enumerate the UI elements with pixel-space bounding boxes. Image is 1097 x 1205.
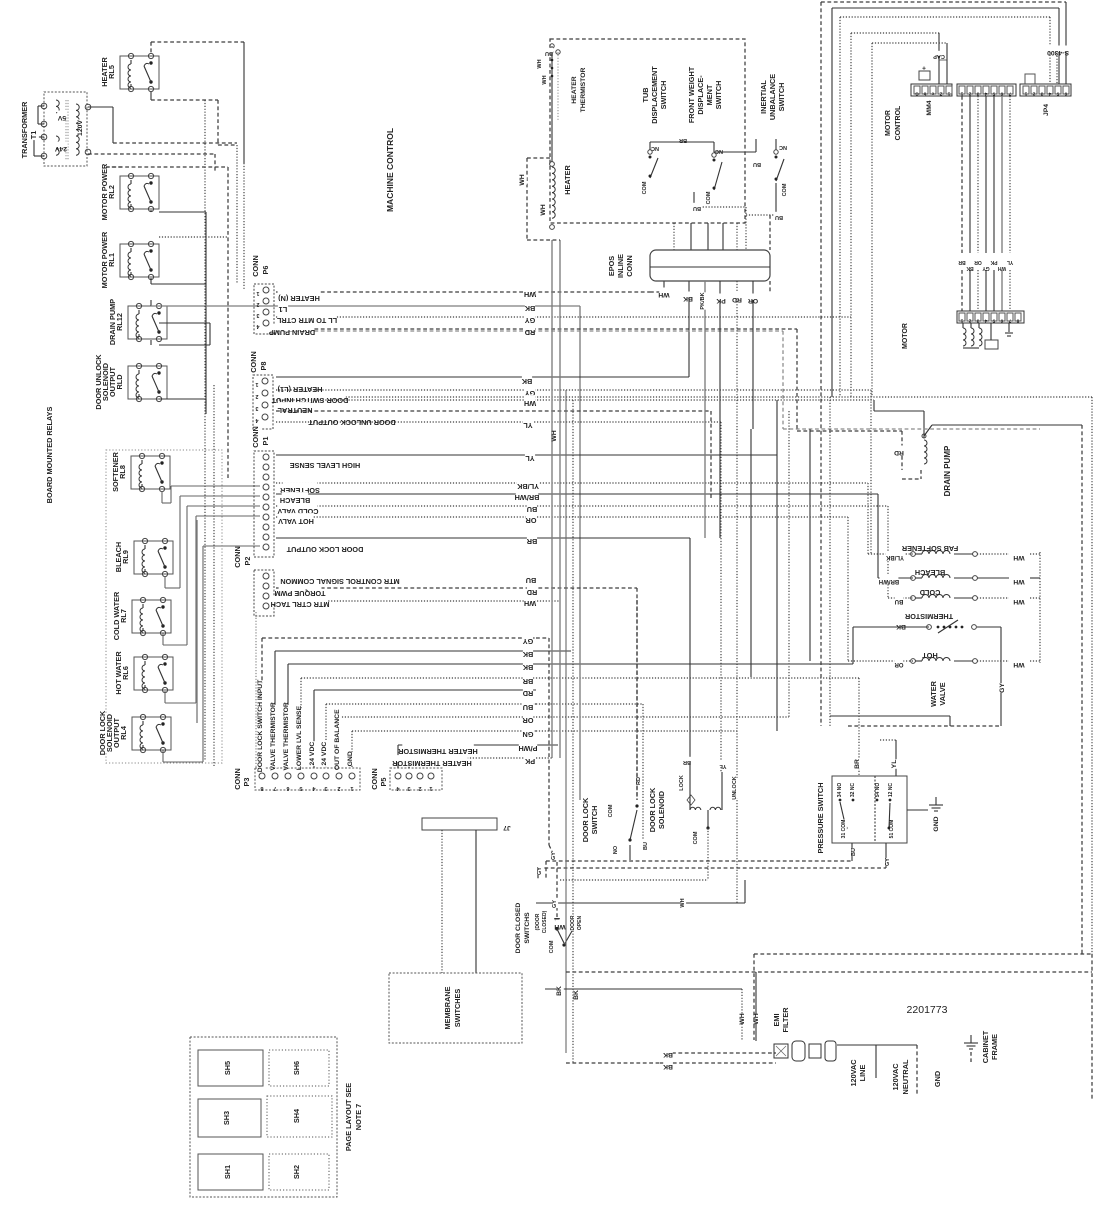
svg-text:24 VDC: 24 VDC <box>309 742 316 766</box>
svg-text:CONN: CONN <box>251 255 260 277</box>
svg-text:YL: YL <box>891 760 898 769</box>
svg-text:3: 3 <box>324 785 327 791</box>
svg-text:P5: P5 <box>379 778 388 787</box>
svg-text:DISPLACE-: DISPLACE- <box>696 75 705 115</box>
svg-text:HEATER THERMISTOR: HEATER THERMISTOR <box>391 759 471 768</box>
svg-text:1: 1 <box>256 290 259 296</box>
svg-text:PK: PK <box>716 297 726 304</box>
svg-text:BK: BK <box>663 1063 673 1070</box>
svg-text:WH: WH <box>680 898 686 907</box>
svg-text:DOOR LOCK: DOOR LOCK <box>648 787 657 832</box>
svg-text:P6: P6 <box>261 266 270 275</box>
svg-text:RD: RD <box>732 296 742 303</box>
svg-text:P2: P2 <box>243 557 252 566</box>
svg-text:1: 1 <box>255 381 258 387</box>
svg-text:WH: WH <box>1013 598 1024 605</box>
svg-text:WH: WH <box>524 399 536 408</box>
svg-text:RD: RD <box>636 777 642 785</box>
svg-text:GY: GY <box>552 900 558 908</box>
svg-text:CAP: CAP <box>933 53 945 59</box>
svg-text:BU: BU <box>693 205 701 211</box>
svg-text:LOCK: LOCK <box>679 775 685 791</box>
svg-text:P/WH: P/WH <box>518 744 537 753</box>
svg-text:INLINE: INLINE <box>616 254 625 278</box>
svg-text:P3: P3 <box>242 778 251 787</box>
svg-text:BR: BR <box>854 759 861 769</box>
svg-text:WH: WH <box>753 1013 760 1024</box>
svg-text:SH5: SH5 <box>223 1061 232 1075</box>
svg-text:GY: GY <box>551 852 557 860</box>
svg-text:3: 3 <box>256 312 259 318</box>
svg-text:HEATER THERMISTOR: HEATER THERMISTOR <box>397 747 477 756</box>
svg-text:OUT OF BALANCE: OUT OF BALANCE <box>334 709 341 770</box>
svg-text:BK: BK <box>663 1051 673 1058</box>
svg-text:P1: P1 <box>261 437 270 446</box>
svg-text:MEMBRANE: MEMBRANE <box>443 986 452 1029</box>
svg-text:51 COM: 51 COM <box>889 820 895 839</box>
svg-text:EMI: EMI <box>772 1014 781 1027</box>
svg-text:G: G <box>915 92 919 97</box>
svg-text:BU: BU <box>523 703 534 712</box>
svg-text:WH: WH <box>542 75 548 84</box>
svg-text:MENT: MENT <box>705 84 714 105</box>
svg-text:FRONT WEIGHT: FRONT WEIGHT <box>687 66 696 123</box>
svg-text:BK: BK <box>521 377 532 386</box>
svg-text:JP4: JP4 <box>1043 104 1050 116</box>
svg-text:FAB SOFTENER: FAB SOFTENER <box>901 544 958 553</box>
svg-text:BK: BK <box>896 623 906 630</box>
svg-text:NC: NC <box>715 148 723 154</box>
svg-text:BR/WH: BR/WH <box>515 493 540 502</box>
svg-text:RLD: RLD <box>115 375 124 390</box>
svg-text:FRAME: FRAME <box>990 1034 999 1060</box>
svg-text:2: 2 <box>337 785 340 791</box>
svg-text:RD: RD <box>894 449 904 456</box>
svg-text:PK: PK <box>524 757 535 766</box>
svg-text:BK: BK <box>966 265 974 271</box>
svg-text:BOARD MOUNTED RELAYS: BOARD MOUNTED RELAYS <box>45 407 54 504</box>
svg-text:MACHINE CONTROL: MACHINE CONTROL <box>385 128 395 212</box>
svg-text:NC: NC <box>779 144 787 150</box>
svg-text:SH1: SH1 <box>223 1165 232 1179</box>
svg-text:Z: Z <box>939 92 942 97</box>
svg-text:WH: WH <box>524 599 536 608</box>
svg-text:THERMISTOR: THERMISTOR <box>580 68 587 113</box>
svg-text:DOOR LOCK: DOOR LOCK <box>581 797 590 842</box>
svg-text:HIGH LEVEL SENSE: HIGH LEVEL SENSE <box>290 461 361 470</box>
svg-text:BK: BK <box>522 663 533 672</box>
svg-text:BLEACH: BLEACH <box>915 568 945 577</box>
svg-text:RL9: RL9 <box>121 550 130 564</box>
svg-text:SWITCH: SWITCH <box>659 81 668 110</box>
svg-text:WH: WH <box>540 204 547 215</box>
svg-text:PRESSURE SWITCH: PRESSURE SWITCH <box>816 783 825 854</box>
svg-text:24V: 24V <box>54 145 67 152</box>
svg-text:BK: BK <box>522 650 533 659</box>
svg-text:DRAIN PUMP: DRAIN PUMP <box>943 445 952 496</box>
svg-text:DOOR LOCK SWITCH INPUT: DOOR LOCK SWITCH INPUT <box>257 679 264 772</box>
svg-text:RL12: RL12 <box>115 313 124 331</box>
svg-text:GND: GND <box>347 751 354 766</box>
svg-text:WATER: WATER <box>929 680 938 707</box>
svg-text:SWITCH: SWITCH <box>714 81 723 110</box>
svg-text:GN: GN <box>523 730 534 739</box>
svg-text:YL: YL <box>525 454 535 463</box>
svg-text:BK: BK <box>556 986 563 996</box>
svg-text:COM: COM <box>549 940 555 953</box>
svg-text:GY: GY <box>982 265 990 271</box>
svg-text:CABINET: CABINET <box>981 1030 990 1063</box>
svg-text:VALVE THERMISTOR: VALVE THERMISTOR <box>270 702 277 770</box>
svg-text:BU: BU <box>643 842 649 850</box>
svg-text:OR: OR <box>894 661 904 667</box>
svg-text:YL: YL <box>1007 259 1013 265</box>
svg-text:BR: BR <box>679 137 687 143</box>
svg-text:SH3: SH3 <box>222 1111 231 1125</box>
svg-text:OPEN: OPEN <box>577 916 583 931</box>
svg-text:SH4: SH4 <box>292 1108 301 1123</box>
svg-text:GND: GND <box>933 1071 942 1087</box>
svg-text:GY: GY <box>537 867 543 875</box>
svg-text:SWITCHES: SWITCHES <box>453 989 462 1028</box>
svg-text:BR: BR <box>958 259 966 265</box>
svg-text:RL2: RL2 <box>107 185 116 199</box>
svg-text:BU: BU <box>851 848 857 856</box>
svg-text:(DOOR: (DOOR <box>535 913 541 930</box>
svg-text:HEATER: HEATER <box>571 76 578 104</box>
svg-text:GY: GY <box>885 858 891 866</box>
svg-text:COM: COM <box>706 191 712 204</box>
svg-text:2: 2 <box>255 393 258 399</box>
svg-text:TUB: TUB <box>641 88 650 103</box>
svg-text:31 COM: 31 COM <box>841 820 847 839</box>
svg-text:GY: GY <box>999 683 1006 693</box>
svg-text:BR: BR <box>526 537 537 546</box>
svg-text:WH: WH <box>519 174 526 185</box>
svg-text:GY: GY <box>525 316 536 325</box>
svg-text:MOTOR: MOTOR <box>902 323 909 349</box>
svg-text:BU: BU <box>526 576 537 585</box>
svg-text:6: 6 <box>286 785 289 791</box>
svg-text:DOOR LOCK OUTPUT: DOOR LOCK OUTPUT <box>286 545 363 554</box>
svg-text:CLOSED): CLOSED) <box>542 910 548 933</box>
svg-text:120VAC: 120VAC <box>849 1059 858 1087</box>
svg-text:8: 8 <box>260 785 263 791</box>
svg-text:CONTROL: CONTROL <box>895 105 902 140</box>
svg-text:RL1: RL1 <box>107 253 116 267</box>
svg-text:S-4300: S-4300 <box>1047 49 1069 56</box>
svg-text:DISPLACEMENT: DISPLACEMENT <box>650 66 659 124</box>
svg-text:5: 5 <box>299 785 302 791</box>
svg-text:SWITCHS: SWITCHS <box>524 912 531 944</box>
svg-text:120V: 120V <box>77 120 84 136</box>
svg-text:YL: YL <box>523 421 533 430</box>
svg-text:BR: BR <box>522 677 533 686</box>
svg-text:3: 3 <box>255 405 258 411</box>
svg-text:WH: WH <box>739 1013 746 1024</box>
svg-text:UNBALANCE: UNBALANCE <box>768 74 777 120</box>
svg-text:LINE: LINE <box>858 1065 867 1082</box>
svg-text:DRAIN PUMP: DRAIN PUMP <box>269 328 315 337</box>
svg-text:GY: GY <box>523 637 534 646</box>
svg-text:SWITCH: SWITCH <box>590 806 599 835</box>
svg-text:b: b <box>923 92 926 97</box>
svg-text:YL: YL <box>719 763 727 769</box>
svg-text:YL/BK: YL/BK <box>885 554 904 560</box>
svg-text:WH: WH <box>524 290 536 299</box>
svg-text:54 NO: 54 NO <box>875 783 881 798</box>
svg-text:TRANSFORMER: TRANSFORMER <box>20 101 29 158</box>
svg-text:HEATER: HEATER <box>563 165 572 195</box>
svg-text:DOOR CLOSED: DOOR CLOSED <box>515 903 522 954</box>
svg-text:120VAC: 120VAC <box>891 1063 900 1091</box>
svg-text:BU: BU <box>775 214 783 220</box>
svg-text:GND: GND <box>933 816 940 831</box>
svg-text:COM: COM <box>642 181 648 194</box>
svg-text:HOT: HOT <box>922 651 938 660</box>
svg-text:WH: WH <box>1013 661 1024 668</box>
svg-text:PAGE LAYOUT SEE: PAGE LAYOUT SEE <box>344 1083 353 1151</box>
svg-text:RD: RD <box>525 328 536 337</box>
svg-text:P8: P8 <box>259 362 268 371</box>
svg-text:34 NO: 34 NO <box>837 783 843 798</box>
svg-text:MTR CONTROL SIGNAL COMMON: MTR CONTROL SIGNAL COMMON <box>280 577 399 586</box>
svg-text:WH: WH <box>1013 578 1024 585</box>
svg-text:CONN: CONN <box>625 255 634 277</box>
svg-text:24 VDC: 24 VDC <box>321 742 328 766</box>
svg-text:BU: BU <box>753 161 761 167</box>
svg-text:RL6: RL6 <box>121 666 130 680</box>
svg-text:SOLENOID: SOLENOID <box>657 791 666 829</box>
svg-text:NO: NO <box>613 845 619 854</box>
svg-text:J7: J7 <box>503 824 511 831</box>
svg-text:VALVE THERMISTOR: VALVE THERMISTOR <box>283 702 290 770</box>
svg-text:PK: PK <box>990 259 997 265</box>
svg-text:INERTIAL: INERTIAL <box>759 80 768 114</box>
svg-text:NOTE 7: NOTE 7 <box>354 1104 363 1130</box>
svg-text:PK/BK: PK/BK <box>700 292 706 309</box>
svg-text:3: 3 <box>407 785 410 791</box>
svg-text:UNLOCK: UNLOCK <box>732 776 738 800</box>
svg-text:NEUTRAL: NEUTRAL <box>901 1059 910 1094</box>
svg-text:BR: BR <box>683 759 691 765</box>
svg-text:OR: OR <box>748 297 758 304</box>
svg-text:LL TO MTR CTRL: LL TO MTR CTRL <box>276 316 337 325</box>
svg-text:SH6: SH6 <box>292 1061 301 1075</box>
svg-text:RL7: RL7 <box>119 609 128 623</box>
svg-text:LOWER LVL SENSE: LOWER LVL SENSE <box>296 705 303 770</box>
svg-text:WH: WH <box>658 291 669 298</box>
svg-text:1: 1 <box>350 785 353 791</box>
svg-text:WH: WH <box>551 430 558 441</box>
svg-text:FILTER: FILTER <box>781 1007 790 1033</box>
svg-text:BR/WH: BR/WH <box>879 578 899 584</box>
svg-text:T1: T1 <box>29 131 38 140</box>
svg-text:NC: NC <box>651 145 659 151</box>
svg-text:BU: BU <box>545 50 553 56</box>
svg-text:BK: BK <box>524 304 535 313</box>
svg-text:SH2: SH2 <box>292 1165 301 1179</box>
svg-text:COM: COM <box>693 831 699 844</box>
svg-text:1: 1 <box>429 785 432 791</box>
svg-text:RL8: RL8 <box>118 465 127 479</box>
svg-text:MTR CTRL TACH: MTR CTRL TACH <box>271 600 330 609</box>
svg-text:WH: WH <box>537 59 543 68</box>
svg-text:2: 2 <box>256 301 259 307</box>
svg-text:WH: WH <box>997 265 1006 271</box>
svg-text:7: 7 <box>273 785 276 791</box>
svg-text:CONN: CONN <box>251 426 260 448</box>
svg-text:32 NC: 32 NC <box>850 783 856 798</box>
svg-text:MM4: MM4 <box>926 100 933 115</box>
svg-text:CONN: CONN <box>233 768 242 790</box>
svg-text:OR: OR <box>522 716 534 725</box>
svg-text:COLD: COLD <box>920 588 941 597</box>
svg-text:SWITCH: SWITCH <box>777 83 786 112</box>
svg-text:RL5: RL5 <box>107 65 116 79</box>
svg-text:WH: WH <box>554 923 565 930</box>
svg-text:RL4: RL4 <box>119 725 128 740</box>
svg-text:2: 2 <box>418 785 421 791</box>
svg-text:COM: COM <box>782 183 788 196</box>
svg-text:WH: WH <box>1013 554 1024 561</box>
svg-text:OR: OR <box>525 516 537 525</box>
svg-text:COM: COM <box>608 804 614 817</box>
svg-text:DOOR: DOOR <box>570 915 576 930</box>
svg-text:RD: RD <box>523 689 534 698</box>
svg-text:MOTOR: MOTOR <box>885 110 892 136</box>
svg-text:BK: BK <box>683 295 693 302</box>
svg-text:HOT VALV: HOT VALV <box>278 517 314 526</box>
svg-text:CONN: CONN <box>249 351 258 373</box>
svg-text:2201773: 2201773 <box>907 1004 948 1016</box>
svg-text:EPOS: EPOS <box>607 256 616 276</box>
svg-text:CONN: CONN <box>233 546 242 568</box>
svg-text:OR: OR <box>974 259 982 265</box>
svg-text:12 NC: 12 NC <box>888 783 894 798</box>
svg-text:BU: BU <box>895 598 904 604</box>
svg-text:BK: BK <box>573 990 580 1000</box>
svg-text:NEUTRAL: NEUTRAL <box>277 406 312 415</box>
svg-text:DOOR UNLOCK OUTPUT: DOOR UNLOCK OUTPUT <box>308 418 396 427</box>
svg-text:THERMISTOR: THERMISTOR <box>904 612 953 621</box>
svg-text:CONN: CONN <box>370 768 379 790</box>
svg-text:5V: 5V <box>57 114 66 121</box>
svg-text:+: + <box>922 64 926 71</box>
svg-text:VALVE: VALVE <box>938 682 947 705</box>
